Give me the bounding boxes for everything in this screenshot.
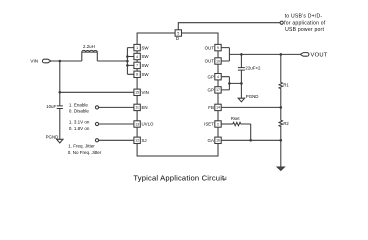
label SJ note — [68, 143, 102, 155]
svg-text:2: 2 — [217, 122, 219, 126]
svg-text:0. 1.8V on: 0. 1.8V on — [69, 126, 90, 131]
svg-text:10: 10 — [216, 59, 220, 63]
svg-text:16: 16 — [216, 139, 220, 143]
svg-text:OUT: OUT — [205, 59, 215, 64]
label EN note — [69, 103, 90, 114]
node R1 top junction — [280, 53, 283, 56]
node C2 bottom junction — [240, 82, 243, 85]
wire SJ — [99, 139, 134, 141]
label UVLO note — [69, 120, 90, 131]
label paragraph mark — [223, 177, 226, 181]
node inductor junction — [126, 60, 129, 63]
svg-text:13: 13 — [135, 122, 139, 126]
svg-text:8: 8 — [136, 73, 138, 77]
wire ISET — [221, 123, 233, 125]
capacitor C1 10uF — [46, 104, 63, 109]
terminal VOUT — [300, 53, 309, 57]
wire OUT bus — [221, 48, 229, 61]
svg-text:PGND: PGND — [246, 94, 259, 99]
pin 14 FB — [208, 104, 221, 110]
svg-text:1. 3.1V on: 1. 3.1V on — [69, 120, 90, 125]
node SJ input terminal — [95, 139, 98, 142]
svg-text:SW: SW — [142, 54, 150, 59]
inductor L1 2.2uH — [82, 44, 98, 61]
node C2 top junction — [240, 53, 243, 56]
pin 7 SW — [134, 62, 150, 68]
wire SW bus — [127, 48, 133, 75]
pin 9 OUT — [205, 44, 222, 50]
pin 2 ISET — [204, 121, 221, 127]
wire VIN down to VIN pin row — [59, 61, 61, 92]
wire down to C1 — [59, 92, 61, 106]
node EN input terminal — [95, 106, 98, 109]
svg-text:D: D — [176, 36, 179, 41]
wire VIN to inductor — [51, 60, 82, 62]
ground PGND right — [238, 94, 258, 102]
svg-text:GP: GP — [208, 88, 214, 93]
node USB terminal — [280, 21, 283, 24]
svg-text:0. No Freq. Jitter: 0. No Freq. Jitter — [68, 150, 102, 155]
svg-text:12: 12 — [135, 139, 139, 143]
svg-text:15: 15 — [135, 91, 139, 95]
label USB note — [284, 14, 326, 34]
ground bottom right — [277, 167, 284, 170]
wire GP bus — [221, 77, 241, 90]
wire inductor to SW bus — [97, 60, 127, 62]
svg-text:2.2uH: 2.2uH — [83, 44, 95, 49]
svg-text:R1: R1 — [283, 82, 289, 87]
resistor R1 — [279, 54, 289, 107]
node SW2 junction — [126, 55, 129, 58]
pin 16 GA — [208, 137, 222, 143]
node VIN pin junction — [59, 91, 62, 94]
svg-text:22uF×2: 22uF×2 — [245, 66, 261, 71]
ground PGND left — [46, 134, 63, 143]
wire D pin to USB terminal — [178, 23, 280, 30]
pin 10 OUT — [205, 58, 222, 64]
svg-text:4: 4 — [217, 75, 219, 79]
pin 5 D — [175, 30, 181, 41]
pin 12 SJ — [134, 137, 147, 143]
svg-text:ISET: ISET — [204, 122, 214, 127]
svg-text:EN: EN — [142, 105, 148, 110]
terminal VIN — [42, 59, 51, 63]
pin 8 SW — [134, 71, 150, 77]
svg-text:7: 7 — [136, 64, 138, 68]
wire FB — [221, 106, 281, 108]
svg-text:VIN: VIN — [30, 58, 38, 63]
wire GA — [221, 139, 281, 141]
node VIN junction — [59, 60, 62, 63]
svg-text:SJ: SJ — [142, 138, 147, 143]
svg-text:1. Enable: 1. Enable — [69, 103, 89, 108]
node GA junction — [280, 139, 283, 142]
svg-text:9: 9 — [217, 46, 219, 50]
svg-text:for application of: for application of — [284, 21, 326, 27]
node UVLO input terminal — [95, 122, 98, 125]
svg-text:4: 4 — [136, 55, 138, 59]
svg-text:USB power port: USB power port — [285, 27, 324, 33]
svg-text:1: 1 — [136, 46, 138, 50]
pin 13 UVLO — [134, 121, 154, 127]
capacitor C2 22uFx2 — [238, 54, 261, 98]
wire to VIN pin — [60, 91, 134, 93]
op-amp U1 IC body — [137, 33, 218, 156]
svg-text:PGND: PGND — [46, 134, 59, 139]
svg-text:SW: SW — [142, 45, 150, 50]
svg-text:14: 14 — [216, 106, 220, 110]
svg-text:SW: SW — [142, 72, 150, 77]
svg-text:1. Freq. Jitter: 1. Freq. Jitter — [68, 143, 95, 148]
node Rset junction — [249, 139, 252, 142]
wire EN — [99, 106, 134, 108]
svg-text:R2: R2 — [283, 121, 289, 126]
svg-text:UVLO: UVLO — [142, 122, 155, 127]
node GP junction — [228, 82, 231, 85]
svg-text:5: 5 — [177, 31, 179, 35]
wire UVLO — [99, 123, 134, 125]
pin 4 SW — [134, 53, 150, 59]
wire C1 to ground — [59, 109, 61, 140]
svg-text:FB: FB — [208, 105, 214, 110]
svg-text:Rset: Rset — [231, 116, 240, 121]
node SW3 junction — [126, 64, 129, 67]
wire OUT to VOUT — [229, 53, 300, 55]
svg-text:VOUT: VOUT — [311, 53, 328, 59]
node FB junction — [280, 106, 283, 109]
svg-text:10uF: 10uF — [46, 104, 56, 109]
resistor R2 — [279, 107, 289, 140]
pin 11 EN — [134, 104, 148, 110]
svg-text:GA: GA — [208, 138, 214, 143]
pin 1 SW — [134, 44, 150, 50]
svg-text:Typical Application Circuit: Typical Application Circuit — [133, 173, 225, 182]
pin 17 GP — [208, 87, 222, 93]
wire GA to ground — [280, 140, 282, 167]
pin 4 GP — [208, 74, 222, 80]
resistor Rset — [231, 116, 241, 126]
pin 15 VIN — [134, 89, 149, 95]
svg-text:SW: SW — [142, 63, 150, 68]
svg-text:17: 17 — [216, 88, 220, 92]
wire Rset to GA net — [241, 124, 251, 140]
svg-text:OUT: OUT — [205, 45, 215, 50]
svg-text:VIN: VIN — [142, 90, 149, 95]
svg-text:to USB’s D+/D-: to USB’s D+/D- — [285, 14, 323, 20]
svg-text:GP: GP — [208, 74, 214, 79]
svg-text:11: 11 — [135, 106, 139, 110]
svg-text:0. Disable: 0. Disable — [69, 108, 90, 113]
